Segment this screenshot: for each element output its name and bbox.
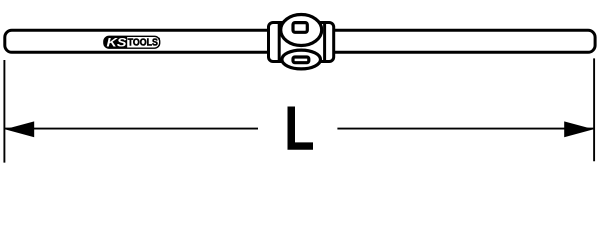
handle bar (long rod)	[5, 30, 595, 52]
KS TOOLS logo	[104, 36, 160, 50]
svg-text:KS: KS	[107, 36, 127, 50]
bottom eye (flatter ellipse)	[282, 50, 321, 69]
left seam line	[278, 23, 281, 62]
right arrow head	[564, 121, 594, 137]
svg-text:TOOLS: TOOLS	[128, 38, 159, 49]
label L (drawn)	[288, 107, 314, 150]
bottom eye slot	[293, 57, 309, 63]
dimension: right extension line	[593, 58, 595, 161]
dimension: left extension line	[3, 60, 5, 163]
top eye (large ellipse)	[281, 15, 322, 46]
dimension line left segment	[5, 128, 258, 130]
right seam line	[323, 23, 326, 62]
left arrow head	[5, 121, 35, 137]
dimension line right segment	[337, 128, 593, 130]
die stock body block with side tabs	[269, 23, 334, 62]
top eye slot	[293, 23, 307, 33]
